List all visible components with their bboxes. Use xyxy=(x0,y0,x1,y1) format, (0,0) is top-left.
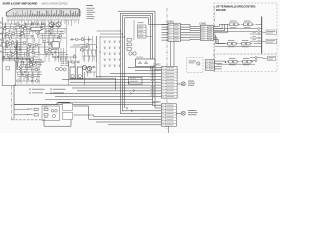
wire into center R row xyxy=(222,61,226,62)
diode D323 xyxy=(127,48,131,51)
wire CN851-CN861 link xyxy=(180,36,200,38)
component row 13 (R/C 360s) xyxy=(16,79,40,82)
note list (abbreviations) xyxy=(87,5,96,19)
diode D321 xyxy=(127,38,131,41)
connector CN871 to center SP board xyxy=(181,81,195,86)
wire bus to CN852 xyxy=(70,81,161,83)
connector CN852 xyxy=(161,66,177,98)
resistor R901 xyxy=(27,108,38,110)
wire xyxy=(250,60,255,62)
wire CN810 stub xyxy=(133,20,135,40)
wire long verticals in board xyxy=(6,20,76,84)
wire CN862 out xyxy=(215,65,223,67)
wire board left edge xyxy=(1,17,3,60)
component fill row c xyxy=(4,35,62,37)
wire xyxy=(14,109,28,111)
wire bus to CN852 xyxy=(45,93,161,95)
component row 3 (R/C/Q 310s) xyxy=(1,31,65,38)
transistor Q311 xyxy=(87,66,91,70)
terminal CENTER SP xyxy=(255,56,276,61)
sub-board note box (dashed) xyxy=(187,58,204,73)
wire loop 1 top xyxy=(120,13,161,105)
wire xyxy=(44,120,71,127)
resistor network R861-R864 (surround R) xyxy=(215,21,262,32)
SP TERMINAL(SURR,CENTER) BOARD outline (dashed) xyxy=(214,3,278,54)
wire CN851-CN852 link a xyxy=(170,41,172,66)
wire bus to CN852 xyxy=(135,70,161,72)
component fill row e xyxy=(4,47,58,51)
node junction xyxy=(225,62,226,63)
signal direction arrows xyxy=(126,81,135,112)
connector CN904 xyxy=(63,112,73,119)
wire CN861 to R row2 xyxy=(213,35,225,44)
component row 14 (R/C 380s) xyxy=(70,37,92,41)
component col right3 (R/C 378s) xyxy=(82,56,96,61)
component fill row a xyxy=(4,24,60,27)
capacitor C320 (large electrolytic) xyxy=(70,67,75,79)
wire vertical group x84-96 xyxy=(85,36,97,62)
connector CN801 pins xyxy=(14,10,79,16)
component fill row h xyxy=(20,62,42,65)
wire CN851-CN861 link xyxy=(180,27,200,28)
wire CN852 to CN871 xyxy=(177,83,181,85)
wire branch 3 xyxy=(100,36,125,38)
wire CN851-CN861 link xyxy=(180,25,200,27)
transistor Q310 xyxy=(82,65,86,69)
transistor Q901 xyxy=(53,115,56,118)
component row 6 (R/C 325s) xyxy=(2,45,48,52)
connector CN903 xyxy=(63,103,73,110)
jumper JW1 xyxy=(6,67,10,71)
wire CN861 to R row1 xyxy=(213,24,227,28)
wire loop 3 top xyxy=(125,18,169,25)
terminal label SURROUND SP R xyxy=(262,30,277,35)
wire CN851-CN861 link xyxy=(180,34,200,36)
wire loop 2 left drop xyxy=(122,16,161,111)
power block outline xyxy=(42,106,60,121)
wire loop 1 left drop xyxy=(120,13,161,113)
wire bus to CN852 xyxy=(77,90,161,92)
component fill row b xyxy=(8,29,64,32)
wire CN851 pin feed xyxy=(162,24,169,26)
component row 8 (R/C 335s) xyxy=(2,55,76,62)
transistor Q321 xyxy=(133,52,136,55)
wire xyxy=(13,105,15,120)
wire CN861 to R row2 xyxy=(213,39,225,43)
IC901 block xyxy=(129,77,143,84)
wire terminal feeds xyxy=(258,27,260,29)
wire bus to CN852 xyxy=(110,73,161,75)
shield can outline xyxy=(2,60,15,86)
component row 11 (R/C 350s) xyxy=(16,71,96,77)
diode D322 xyxy=(127,43,131,46)
op-amp IC301 xyxy=(52,42,59,48)
value table labels xyxy=(61,54,68,66)
component fill row j xyxy=(18,73,42,75)
test point grid TP301-TP320 xyxy=(104,41,122,67)
chassis boundary bottom (dashed) xyxy=(12,119,46,121)
wire bus to CN852 xyxy=(14,84,161,86)
wire CN851 pin feed xyxy=(162,39,169,41)
wire bus to CN853 xyxy=(108,124,161,126)
board boundary line (dash-dot) xyxy=(166,8,168,130)
component row 7 (R/C/Q 330s) xyxy=(2,50,66,57)
component col right2 (R/C 375s) xyxy=(80,48,96,55)
wire vertical quad mid xyxy=(55,48,57,60)
connector CN872 to sub woofer xyxy=(181,110,197,115)
svg-text:(MDX-C6400X/C5970E): (MDX-C6400X/C5970E) xyxy=(42,1,68,5)
capacitor C321 (large electrolytic) xyxy=(77,67,82,79)
wire loop 0 xyxy=(118,11,161,108)
wire CN851 pin feed xyxy=(162,29,169,31)
wire CN853 to CN872 xyxy=(176,113,181,115)
wire branch 2 xyxy=(100,33,122,35)
wire long vertical pair left xyxy=(15,40,17,70)
connector CN810 small table xyxy=(138,22,147,38)
wire CN851-CN861 link xyxy=(180,29,200,32)
wire CN862 out xyxy=(215,63,223,65)
component row 9 (R/C 340s) xyxy=(16,60,80,67)
svg-text:SURR & CONT AMP BOARD: SURR & CONT AMP BOARD xyxy=(3,1,38,5)
wire loop 2 top xyxy=(122,16,161,70)
edge pads left xyxy=(0,22,2,52)
component row 10 (R/C Q 345s) xyxy=(18,65,96,72)
legend: signal path notes xyxy=(29,89,65,94)
wire labeled run with arrow xyxy=(70,45,88,49)
component fill row g xyxy=(18,58,42,61)
wire aux bus lines xyxy=(45,99,153,101)
board boundary line right (dash-dot) xyxy=(214,6,216,72)
wire vertical pair x96-100 xyxy=(96,36,101,78)
wire CN861 to R row2 xyxy=(213,37,225,44)
connector CN861 xyxy=(200,25,213,40)
wire bus to CN852 xyxy=(72,87,161,89)
wire board inner edge xyxy=(70,78,116,90)
wire heavy vertical speaker feed xyxy=(261,17,263,54)
wire bus to CN852 xyxy=(96,75,161,77)
wire vertical drops to ground run xyxy=(67,60,69,85)
wire xyxy=(257,57,268,60)
wire xyxy=(74,115,162,116)
connector CN853 xyxy=(161,104,176,126)
wire signal run xyxy=(2,59,44,63)
transistor Q301 xyxy=(49,22,54,27)
wire CN851 pin feed xyxy=(162,34,169,36)
component fill row d xyxy=(6,44,60,46)
wire CN851 pin feed xyxy=(162,26,169,28)
transistor Q320 xyxy=(129,52,132,55)
component row 2 (R/C 305s) xyxy=(2,26,66,33)
wire stub below CN853 xyxy=(168,126,170,133)
wire CN861 to R row1 xyxy=(213,24,227,26)
chassis boundary (dash-dot) xyxy=(11,86,13,120)
transistor circles row xyxy=(56,68,67,72)
wire loop 3 left drop xyxy=(124,18,126,108)
resistor network R869-R872 (center) xyxy=(217,58,256,65)
connector CN801 card-edge band xyxy=(6,9,80,16)
capacitor C901 xyxy=(44,107,48,111)
svg-text:BOARD: BOARD xyxy=(216,8,226,12)
capacitor C902 xyxy=(44,114,48,118)
component fill row f xyxy=(6,53,54,56)
wire CN851 pin feed xyxy=(162,31,169,33)
connector CN862 xyxy=(205,60,214,70)
wire CN862 out xyxy=(215,60,223,62)
connector CN801 pin name strip xyxy=(7,19,79,22)
svg-text:CN851: CN851 xyxy=(167,20,175,23)
relay RY901 xyxy=(136,57,156,66)
component row 12 (R/C 355s) xyxy=(18,75,40,80)
component row 5 (R/C/Q 320s) xyxy=(1,40,59,47)
wire CN851-CN852 link b xyxy=(173,41,175,66)
wire branch 1 xyxy=(97,30,121,32)
op-amp IC302 xyxy=(31,27,41,30)
component col right (R/C 370s) xyxy=(80,44,96,50)
svg-text:SP TERMINAL(SURR,CENTER): SP TERMINAL(SURR,CENTER) xyxy=(216,4,255,8)
resistor R902 xyxy=(27,114,38,116)
wire bus to CN852 xyxy=(55,96,161,98)
wire bus to CN852 xyxy=(128,67,161,69)
component fill row i xyxy=(18,67,40,70)
wire CN851 pin feed xyxy=(162,37,169,39)
connector CN801 pin stubs and pad labels xyxy=(7,16,79,18)
wire bus to CN852 xyxy=(62,78,161,80)
terminal label SURROUND SP L xyxy=(262,39,277,44)
wire CN861 to R row1 xyxy=(213,24,227,33)
transistor Q302 xyxy=(56,22,61,27)
connector CN851 xyxy=(168,23,180,41)
wire CN851-CN861 link xyxy=(180,38,200,41)
wire xyxy=(14,103,70,105)
wire bus to CN853 xyxy=(140,118,161,120)
diode D901 xyxy=(51,110,57,113)
component row 4 (R/C 315s) xyxy=(2,36,66,43)
wire xyxy=(14,114,28,116)
resistor network R865-R868 (surround L) xyxy=(215,40,262,47)
wire bus from CN801 into board xyxy=(8,21,78,27)
wire CN861 to R row1 xyxy=(213,24,227,30)
wire ground run bottom xyxy=(14,85,153,105)
wire CN851-CN861 link xyxy=(180,31,200,34)
svg-text:CN861: CN861 xyxy=(199,22,207,25)
wire bus to CN853 xyxy=(96,121,161,123)
component row 1 (R/C/Q 300s) xyxy=(2,22,46,29)
wire xyxy=(74,106,162,119)
wire xyxy=(250,57,255,59)
SP TERMINAL board lower section outline (dashed) xyxy=(214,54,278,72)
wire CN862 out xyxy=(215,68,223,70)
